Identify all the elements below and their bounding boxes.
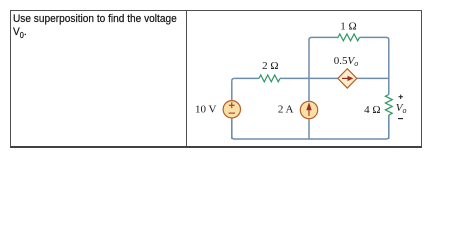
svg-text:2 A: 2 A bbox=[278, 104, 294, 116]
svg-text:Vo: Vo bbox=[396, 102, 407, 115]
current source 2A circle bbox=[300, 101, 317, 118]
resistor 4ohm zigzag (vertical) bbox=[385, 95, 392, 116]
wire: right branch lower segment bbox=[388, 115, 390, 139]
wire: middle rail left segment bbox=[234, 77, 259, 79]
svg-text:2 Ω: 2 Ω bbox=[262, 60, 278, 72]
wire: middle rail center segment bbox=[280, 77, 338, 79]
svg-text:4 Ω: 4 Ω bbox=[364, 104, 380, 116]
resistor 1ohm zigzag bbox=[338, 34, 359, 41]
minus sign inside 10V bbox=[229, 112, 235, 114]
wire: 2A branch vertical bbox=[308, 78, 310, 139]
arrow inside diamond bbox=[342, 77, 349, 79]
wire: corner at 10V branch top bbox=[232, 78, 235, 81]
resistor 2ohm zigzag bbox=[259, 75, 280, 82]
wire: top rail with corners bbox=[309, 37, 389, 94]
column divider bbox=[186, 11, 187, 146]
dependent source diamond 0.5Vo bbox=[338, 69, 357, 88]
wire: middle rail right segment bbox=[357, 77, 389, 79]
plus sign inside 10V bbox=[229, 102, 235, 108]
wire: left branch vertical (10V branch) bbox=[231, 81, 233, 139]
table cell border bbox=[10, 10, 422, 148]
wire: bottom rail bbox=[232, 115, 389, 139]
svg-text:0.5Vo: 0.5Vo bbox=[334, 55, 358, 68]
arrow inside 2A bbox=[308, 109, 310, 116]
svg-text:10 V: 10 V bbox=[195, 104, 217, 116]
svg-text:1 Ω: 1 Ω bbox=[340, 21, 356, 33]
label plus (Vo polarity) bbox=[399, 95, 403, 99]
voltage source 10V circle bbox=[223, 101, 240, 118]
label minus (Vo polarity) bbox=[398, 118, 403, 120]
